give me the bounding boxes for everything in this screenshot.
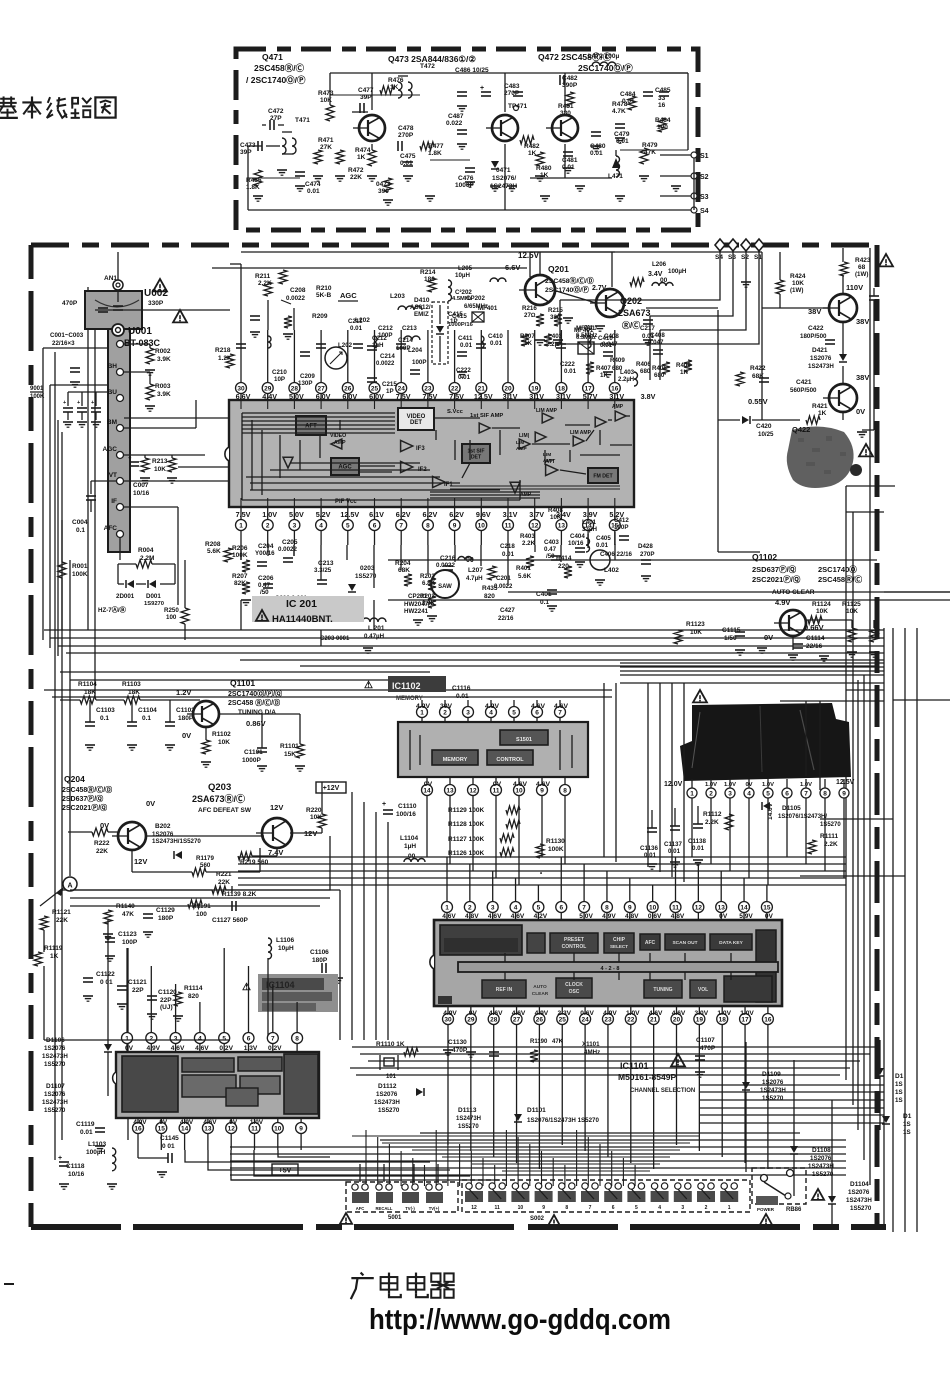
svg-text:L204: L204 xyxy=(408,347,423,354)
svg-text:R421: R421 xyxy=(812,403,828,410)
svg-text:12.0V: 12.0V xyxy=(664,781,683,788)
svg-text:1S2473H: 1S2473H xyxy=(456,1116,481,1122)
svg-text:4.6V: 4.6V xyxy=(511,913,525,920)
svg-text:10: 10 xyxy=(518,1205,524,1211)
svg-text:6.2V: 6.2V xyxy=(423,510,438,519)
svg-text:HW2241: HW2241 xyxy=(404,608,429,615)
svg-text:LIM AMP: LIM AMP xyxy=(536,408,558,414)
svg-text:0V: 0V xyxy=(146,799,155,808)
svg-text:AGC: AGC xyxy=(340,291,357,300)
svg-text:10: 10 xyxy=(478,522,486,529)
svg-text:1S: 1S xyxy=(903,1121,911,1128)
svg-text:4.9V: 4.9V xyxy=(603,1010,617,1017)
svg-text:1S2473H: 1S2473H xyxy=(374,1099,400,1106)
svg-text:TV(-): TV(-) xyxy=(405,1206,415,1211)
svg-text:4.9V: 4.9V xyxy=(775,598,790,607)
svg-text:VT: VT xyxy=(109,472,117,479)
svg-text:D1105: D1105 xyxy=(782,805,801,812)
svg-text:R403: R403 xyxy=(520,533,535,540)
svg-text:L1106: L1106 xyxy=(276,937,294,944)
svg-text:4.6V: 4.6V xyxy=(672,1010,686,1017)
svg-text:12V: 12V xyxy=(270,803,283,812)
svg-text:R208: R208 xyxy=(205,541,221,548)
svg-text:4 - 2 - 8: 4 - 2 - 8 xyxy=(601,966,620,972)
svg-text:C1127 560P: C1127 560P xyxy=(212,917,248,924)
svg-text:S2: S2 xyxy=(700,174,709,181)
svg-text:3.0V: 3.0V xyxy=(695,1010,709,1017)
svg-text:L471: L471 xyxy=(608,173,623,180)
svg-text:R207: R207 xyxy=(232,573,248,580)
svg-text:0V: 0V xyxy=(493,781,502,788)
svg-text:R422: R422 xyxy=(750,365,766,372)
svg-text:0V: 0V xyxy=(469,1010,478,1017)
svg-text:C472: C472 xyxy=(268,108,284,115)
svg-text:R004: R004 xyxy=(138,547,154,554)
svg-text:R435: R435 xyxy=(482,585,498,592)
svg-text:1S5270: 1S5270 xyxy=(850,1205,872,1212)
svg-text:3.8V: 3.8V xyxy=(641,392,656,401)
svg-text:C209: C209 xyxy=(300,373,315,380)
svg-text:4.9V: 4.9V xyxy=(485,703,499,710)
svg-text:2SC1740Ⓞ/Ⓟ/Ⓠ: 2SC1740Ⓞ/Ⓟ/Ⓠ xyxy=(228,689,282,698)
svg-text:(1W): (1W) xyxy=(790,287,803,294)
svg-text:1P: 1P xyxy=(386,388,394,395)
svg-text:10K: 10K xyxy=(550,514,562,521)
svg-text:110V: 110V xyxy=(846,283,863,292)
svg-text:1: 1 xyxy=(728,1205,731,1211)
svg-text:1S2076: 1S2076 xyxy=(810,355,832,362)
svg-text:6: 6 xyxy=(247,1035,251,1042)
svg-text:2SC1740Ⓞ/Ⓟ: 2SC1740Ⓞ/Ⓟ xyxy=(578,63,633,73)
svg-text:12: 12 xyxy=(228,1125,236,1132)
svg-text:12: 12 xyxy=(469,787,477,794)
svg-text:13: 13 xyxy=(446,787,454,794)
svg-text:1S2473H: 1S2473H xyxy=(846,1197,872,1204)
svg-text:2: 2 xyxy=(705,1205,708,1211)
svg-text:0V: 0V xyxy=(159,1119,168,1126)
svg-text:AFC: AFC xyxy=(645,940,656,946)
svg-text:L202: L202 xyxy=(338,342,353,349)
svg-text:0V: 0V xyxy=(229,1119,238,1126)
svg-text:MF401: MF401 xyxy=(574,327,594,334)
svg-text:Y00/16: Y00/16 xyxy=(255,550,275,557)
svg-text:1S5270: 1S5270 xyxy=(44,1061,66,1068)
svg-text:0.01: 0.01 xyxy=(596,542,609,549)
svg-text:C1137: C1137 xyxy=(664,841,682,848)
svg-text:1S2473H/1S5270: 1S2473H/1S5270 xyxy=(152,838,201,845)
svg-text:C222: C222 xyxy=(560,361,575,368)
svg-text:R481: R481 xyxy=(558,103,574,110)
svg-text:16: 16 xyxy=(658,102,666,109)
svg-text:24: 24 xyxy=(581,1016,589,1023)
svg-text:470P: 470P xyxy=(452,1047,468,1054)
svg-text:L207: L207 xyxy=(468,567,483,574)
svg-text:S3: S3 xyxy=(700,194,709,201)
svg-text:33µH: 33µH xyxy=(582,526,597,533)
svg-text:30: 30 xyxy=(444,1016,452,1023)
svg-text:7.5V: 7.5V xyxy=(449,392,464,401)
svg-text:4: 4 xyxy=(747,790,751,797)
svg-text:+: + xyxy=(480,85,484,92)
svg-text:27Ω: 27Ω xyxy=(524,312,536,319)
svg-text:5K-B: 5K-B xyxy=(316,292,331,299)
svg-text:R1101: R1101 xyxy=(280,743,299,750)
svg-text:2SC458Ⓡ/Ⓒ: 2SC458Ⓡ/Ⓒ xyxy=(818,574,863,584)
svg-text:0.6V: 0.6V xyxy=(648,913,662,920)
svg-text:4: 4 xyxy=(198,1035,202,1042)
svg-text:5.0V: 5.0V xyxy=(579,913,593,920)
svg-text:REF IN: REF IN xyxy=(496,987,513,993)
svg-text:CP201: CP201 xyxy=(408,593,427,600)
svg-text:C1110: C1110 xyxy=(398,803,417,810)
svg-text:6.2V: 6.2V xyxy=(449,510,464,519)
svg-text:M50161-8549P: M50161-8549P xyxy=(618,1072,676,1082)
svg-text:TV(+): TV(+) xyxy=(429,1206,440,1211)
svg-text:1.0V: 1.0V xyxy=(800,782,812,788)
svg-text:7: 7 xyxy=(558,709,562,716)
svg-text:7.5V: 7.5V xyxy=(236,510,251,519)
svg-text:C420: C420 xyxy=(756,423,772,430)
svg-text:1000P/16: 1000P/16 xyxy=(448,322,474,328)
svg-text:4: 4 xyxy=(489,709,493,716)
svg-text:470P: 470P xyxy=(62,300,78,307)
svg-text:100P: 100P xyxy=(122,939,138,946)
svg-text:+5V: +5V xyxy=(279,1168,292,1175)
svg-text:0.01: 0.01 xyxy=(490,340,503,347)
svg-text:S1: S1 xyxy=(754,254,762,261)
svg-text:IC 201: IC 201 xyxy=(286,598,317,610)
svg-text:D428: D428 xyxy=(638,543,653,550)
svg-text:8: 8 xyxy=(605,904,609,911)
svg-text:3.1V: 3.1V xyxy=(503,510,518,519)
svg-text:1: 1 xyxy=(239,522,243,529)
svg-text:180P: 180P xyxy=(178,715,194,722)
svg-text:Q203: Q203 xyxy=(208,782,231,793)
svg-text:C483: C483 xyxy=(504,83,520,90)
svg-text:1S5270: 1S5270 xyxy=(762,1095,784,1102)
svg-text:C1129: C1129 xyxy=(156,907,175,914)
svg-text:1.0V: 1.0V xyxy=(724,782,736,788)
svg-text:C403: C403 xyxy=(544,539,559,546)
svg-text:3: 3 xyxy=(466,709,470,716)
svg-text:1S5270: 1S5270 xyxy=(44,1107,66,1114)
svg-text:4.7K: 4.7K xyxy=(612,108,626,115)
svg-text:BU: BU xyxy=(108,389,118,396)
svg-text:C1130: C1130 xyxy=(448,1039,467,1046)
svg-text:10/16: 10/16 xyxy=(68,1171,85,1178)
svg-text:R424: R424 xyxy=(790,273,806,280)
svg-text:1S5270: 1S5270 xyxy=(458,1124,479,1130)
svg-text:0.01: 0.01 xyxy=(616,138,629,145)
svg-text:1S5270: 1S5270 xyxy=(820,822,841,828)
svg-text:0V: 0V xyxy=(764,633,773,642)
svg-text:C408: C408 xyxy=(650,332,665,339)
svg-text:0.55V: 0.55V xyxy=(748,397,768,406)
svg-text:Q201: Q201 xyxy=(548,264,569,274)
svg-text:8: 8 xyxy=(295,1035,299,1042)
svg-text:0.47: 0.47 xyxy=(544,546,557,553)
svg-text:1.0V: 1.0V xyxy=(740,1010,754,1017)
svg-text:+: + xyxy=(382,801,386,808)
svg-text:2D001: 2D001 xyxy=(116,593,135,600)
svg-text:C412: C412 xyxy=(614,517,629,524)
svg-text:3: 3 xyxy=(728,790,732,797)
svg-text:2: 2 xyxy=(443,709,447,716)
svg-text:0.01: 0.01 xyxy=(307,188,320,195)
svg-text:IC1101: IC1101 xyxy=(620,1061,649,1071)
svg-text:0V: 0V xyxy=(182,731,191,740)
svg-text:16: 16 xyxy=(134,1125,142,1132)
svg-text:22/16×3: 22/16×3 xyxy=(52,340,75,347)
svg-text:C485: C485 xyxy=(655,87,671,94)
svg-text:C001~C003: C001~C003 xyxy=(50,332,84,339)
svg-text:L401: L401 xyxy=(582,519,597,526)
svg-text:4: 4 xyxy=(514,904,518,911)
svg-text:13: 13 xyxy=(558,522,566,529)
svg-text:7: 7 xyxy=(582,904,586,911)
svg-text:IF: IF xyxy=(111,498,117,505)
svg-text:4.9V: 4.9V xyxy=(443,1010,457,1017)
svg-text:23: 23 xyxy=(604,1016,612,1023)
svg-text:0V: 0V xyxy=(745,782,752,788)
svg-text:R1114: R1114 xyxy=(184,985,203,992)
svg-text:0.01: 0.01 xyxy=(80,1129,93,1136)
svg-text:BT-083C: BT-083C xyxy=(124,338,161,348)
svg-text:AN1: AN1 xyxy=(104,275,117,282)
svg-text:8: 8 xyxy=(565,1205,568,1211)
svg-text:27P: 27P xyxy=(270,115,282,122)
svg-text:270P: 270P xyxy=(640,551,654,558)
svg-text:R218: R218 xyxy=(215,347,231,354)
svg-text:1S2473H: 1S2473H xyxy=(808,363,834,370)
svg-text:0.66V: 0.66V xyxy=(804,623,824,632)
svg-text:38V: 38V xyxy=(856,317,869,326)
svg-text:C479: C479 xyxy=(614,131,630,138)
svg-text:220: 220 xyxy=(558,563,569,570)
svg-text:A: A xyxy=(67,883,72,890)
svg-text:1: 1 xyxy=(445,904,449,911)
svg-text:C475: C475 xyxy=(400,153,416,160)
svg-text:100: 100 xyxy=(196,911,207,918)
svg-text:10K: 10K xyxy=(690,629,702,636)
svg-text:5: 5 xyxy=(222,1035,226,1042)
svg-text:2.2K: 2.2K xyxy=(522,540,536,547)
svg-text:1S9270: 1S9270 xyxy=(144,601,164,607)
svg-text:5: 5 xyxy=(537,904,541,911)
svg-text:6: 6 xyxy=(612,1205,615,1211)
svg-text:Q1101: Q1101 xyxy=(230,678,255,688)
svg-text:R1103: R1103 xyxy=(122,681,141,688)
svg-text:22/16: 22/16 xyxy=(806,643,823,650)
svg-text:3: 3 xyxy=(491,904,495,911)
svg-text:0.01: 0.01 xyxy=(564,368,577,375)
svg-text:19: 19 xyxy=(696,1016,704,1023)
svg-text:C1115: C1115 xyxy=(722,627,741,634)
svg-text:HZ-7Ⓐ/Ⓑ: HZ-7Ⓐ/Ⓑ xyxy=(98,606,127,614)
svg-text:1K: 1K xyxy=(357,154,366,161)
svg-text:100K: 100K xyxy=(548,846,564,853)
svg-text:1.8K: 1.8K xyxy=(428,150,442,157)
svg-text:0.01: 0.01 xyxy=(458,374,471,381)
svg-text:R423: R423 xyxy=(855,257,871,264)
svg-text:DET: DET xyxy=(471,455,482,461)
svg-text:T471: T471 xyxy=(295,117,310,124)
svg-text:12.5V: 12.5V xyxy=(340,510,359,519)
svg-text:10µH: 10µH xyxy=(278,945,294,952)
svg-text:C222: C222 xyxy=(456,367,471,374)
svg-text:4.6V: 4.6V xyxy=(513,781,527,788)
svg-text:5: 5 xyxy=(512,709,516,716)
svg-text:S1501: S1501 xyxy=(516,737,532,743)
svg-text:1.0V: 1.0V xyxy=(250,1119,264,1126)
svg-text:10: 10 xyxy=(274,1125,282,1132)
svg-text:C405: C405 xyxy=(596,535,611,542)
svg-text:C212: C212 xyxy=(378,325,393,332)
svg-text:/ 2SC1740Ⓞ/Ⓟ: / 2SC1740Ⓞ/Ⓟ xyxy=(246,75,306,85)
svg-text:0.6V: 0.6V xyxy=(580,1010,594,1017)
svg-text:9: 9 xyxy=(628,904,632,911)
svg-text:1000P: 1000P xyxy=(455,182,474,189)
svg-text:TUNING: TUNING xyxy=(653,987,672,993)
svg-text:(1W): (1W) xyxy=(855,271,868,278)
svg-text:47K: 47K xyxy=(122,911,134,918)
svg-text:RB86: RB86 xyxy=(786,1207,802,1213)
svg-text:1.0V: 1.0V xyxy=(262,510,277,519)
svg-text:6.0V: 6.0V xyxy=(316,392,331,401)
svg-text:6: 6 xyxy=(559,904,563,911)
svg-text:7: 7 xyxy=(271,1035,275,1042)
svg-text:4: 4 xyxy=(319,522,323,529)
svg-text:L206: L206 xyxy=(652,261,667,268)
svg-text:D1: D1 xyxy=(903,1113,912,1120)
svg-text:R250: R250 xyxy=(164,607,179,614)
svg-text:10K: 10K xyxy=(816,608,828,615)
svg-text:R1124: R1124 xyxy=(812,601,831,608)
svg-text:CONTROL: CONTROL xyxy=(562,944,587,950)
svg-text:0.01: 0.01 xyxy=(456,693,469,700)
svg-text:100K: 100K xyxy=(30,394,45,400)
svg-text:C1103: C1103 xyxy=(96,707,115,714)
svg-text:470P: 470P xyxy=(700,1045,716,1052)
svg-text:C415: C415 xyxy=(452,313,467,320)
svg-text:1µH: 1µH xyxy=(404,843,416,850)
svg-text:⚠: ⚠ xyxy=(242,982,251,993)
svg-text:00: 00 xyxy=(466,557,474,564)
svg-text:VOL: VOL xyxy=(698,987,708,993)
svg-text:0.0022: 0.0022 xyxy=(376,361,395,367)
svg-text:2SC458 Ⓡ/Ⓒ/Ⓓ: 2SC458 Ⓡ/Ⓒ/Ⓓ xyxy=(228,698,280,707)
svg-text:+: + xyxy=(77,400,80,406)
svg-text:1S2076/1S2473H/: 1S2076/1S2473H/ xyxy=(778,814,827,820)
svg-text:AFC DEFEAT SW: AFC DEFEAT SW xyxy=(198,807,252,814)
svg-text:10µH: 10µH xyxy=(455,272,470,279)
svg-text:5: 5 xyxy=(766,790,770,797)
svg-text:27K: 27K xyxy=(320,144,332,151)
svg-text:7: 7 xyxy=(589,1205,592,1211)
svg-text:LIM: LIM xyxy=(516,440,524,446)
svg-text:U001: U001 xyxy=(128,326,152,337)
svg-text:10/16: 10/16 xyxy=(133,490,150,497)
svg-text:1.0V: 1.0V xyxy=(717,1010,731,1017)
svg-text:5.0V: 5.0V xyxy=(289,510,304,519)
svg-text:10/25: 10/25 xyxy=(758,431,774,438)
svg-text:FM DET: FM DET xyxy=(593,474,613,480)
svg-text:L1104: L1104 xyxy=(400,835,418,842)
svg-text:BM: BM xyxy=(107,419,117,426)
svg-text:+: + xyxy=(58,1155,62,1162)
svg-text:C404: C404 xyxy=(570,533,585,540)
svg-text:100: 100 xyxy=(166,614,177,621)
svg-text:20: 20 xyxy=(673,1016,681,1023)
svg-text:BH: BH xyxy=(108,363,118,370)
svg-text:L403: L403 xyxy=(620,369,635,376)
svg-text:R216: R216 xyxy=(522,305,537,312)
svg-text:0V: 0V xyxy=(856,407,865,416)
svg-text:D1112: D1112 xyxy=(378,1083,397,1090)
svg-text:R406: R406 xyxy=(636,361,651,368)
svg-text:OSC: OSC xyxy=(569,989,580,995)
svg-text:0.01: 0.01 xyxy=(460,342,473,349)
svg-text:1.0V: 1.0V xyxy=(626,1010,640,1017)
svg-text:C201: C201 xyxy=(496,575,511,582)
svg-text:9: 9 xyxy=(453,522,457,529)
svg-text:5.9V: 5.9V xyxy=(739,913,753,920)
svg-text:12.5V: 12.5V xyxy=(474,392,493,401)
svg-text:C427: C427 xyxy=(500,607,515,614)
svg-text:(UJ): (UJ) xyxy=(160,1004,173,1011)
svg-text:T472: T472 xyxy=(420,63,435,70)
svg-text:27: 27 xyxy=(513,1016,521,1023)
svg-text:+: + xyxy=(63,400,66,406)
svg-text:SELECT: SELECT xyxy=(610,944,628,949)
svg-text:L1103: L1103 xyxy=(88,1141,106,1148)
svg-text:D001: D001 xyxy=(146,593,161,600)
svg-text:C203 0001: C203 0001 xyxy=(320,636,350,642)
svg-text:1S2076: 1S2076 xyxy=(44,1091,66,1098)
svg-text:10P: 10P xyxy=(274,376,285,383)
svg-text:26: 26 xyxy=(536,1016,544,1023)
svg-text:11: 11 xyxy=(493,787,500,794)
svg-text:4.6V: 4.6V xyxy=(512,1010,526,1017)
svg-text:1S2076: 1S2076 xyxy=(810,1155,832,1162)
svg-text:R1102: R1102 xyxy=(212,731,231,738)
svg-text:R1119: R1119 xyxy=(44,945,63,952)
svg-text:R1126 100K: R1126 100K xyxy=(448,850,484,857)
svg-text:C211: C211 xyxy=(348,318,363,325)
svg-text:17: 17 xyxy=(741,1016,749,1023)
svg-text:15: 15 xyxy=(763,904,771,911)
svg-text:C213: C213 xyxy=(402,325,417,332)
svg-text:680: 680 xyxy=(640,368,651,375)
svg-text:12: 12 xyxy=(531,522,539,529)
svg-text:R473: R473 xyxy=(318,90,334,97)
svg-text:D1108: D1108 xyxy=(812,1147,831,1154)
svg-text:C214: C214 xyxy=(380,353,395,360)
svg-text:1S2473H: 1S2473H xyxy=(808,1163,834,1170)
svg-text:8: 8 xyxy=(823,790,827,797)
svg-text:12V: 12V xyxy=(134,857,147,866)
svg-text:9: 9 xyxy=(842,790,846,797)
svg-text:10: 10 xyxy=(649,904,657,911)
svg-text:0203: 0203 xyxy=(360,565,375,572)
svg-text:C411: C411 xyxy=(458,335,473,342)
svg-text:+: + xyxy=(91,400,94,406)
svg-text:39P: 39P xyxy=(240,149,252,156)
svg-text:4.2V: 4.2V xyxy=(534,913,548,920)
svg-text:C476: C476 xyxy=(458,175,474,182)
svg-text:C1122: C1122 xyxy=(96,971,115,978)
svg-text:6.0V: 6.0V xyxy=(342,392,357,401)
